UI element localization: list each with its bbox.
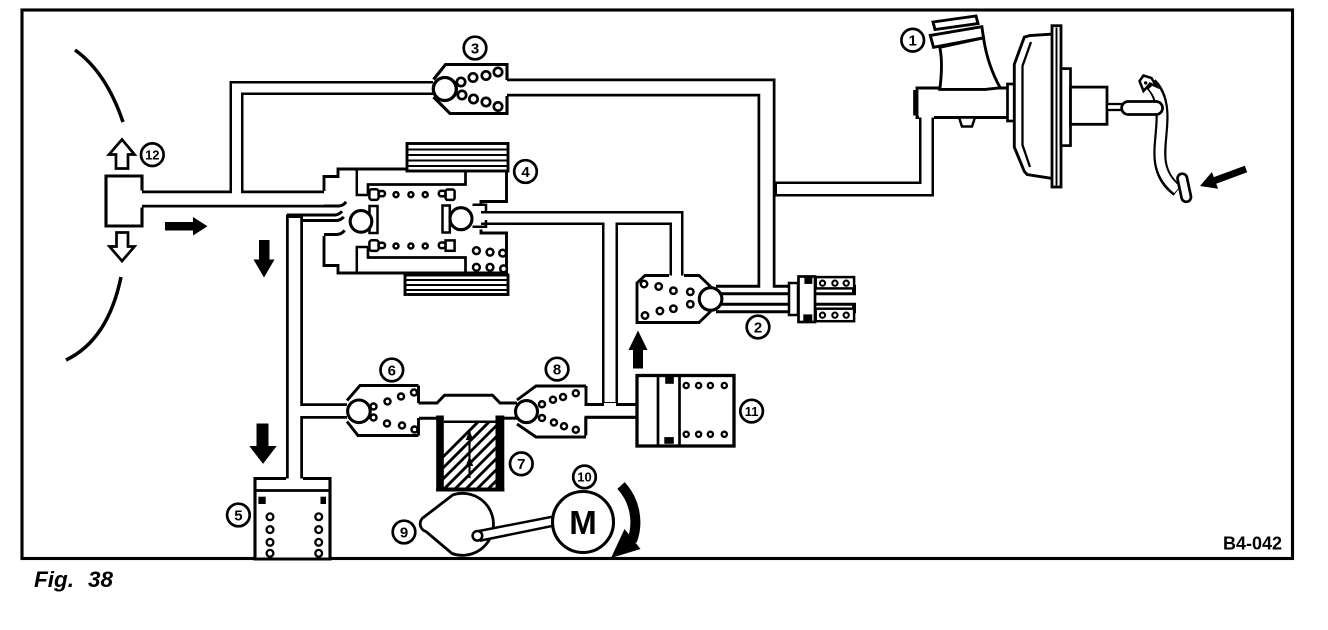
hollow arrow up at wheel cylinder — [109, 140, 135, 169]
solid arrow at pedal — [1200, 166, 1247, 189]
pipe: tee branch down from valve4 output to channel near 11 — [602, 224, 618, 403]
pressure cylinder 11 body — [637, 376, 734, 447]
valve 4 upper-left inner bracket — [357, 170, 368, 195]
motor rotation arrow — [621, 486, 635, 542]
cam crank pin — [473, 531, 483, 541]
cylinder 11 seal marks — [665, 376, 674, 384]
control valve 4 outline — [324, 169, 507, 273]
wheel drum arc (upper segment) — [75, 50, 123, 122]
reservoir cap — [933, 16, 978, 30]
label circle 7 — [510, 453, 533, 476]
svg-text:7: 7 — [517, 456, 525, 473]
pump chamber 7 hatching — [400, 420, 568, 500]
wheel cylinder 12 — [106, 176, 142, 226]
pipe: wheel cylinder 12 to valve 4 inlet — [139, 191, 334, 208]
label circle 12 — [141, 143, 164, 166]
valve 4 outlet mouth flare — [473, 205, 487, 227]
check valve 6 spring circles — [371, 390, 418, 433]
svg-text:B4-042: B4-042 — [1223, 534, 1282, 554]
clevis rod pill — [1122, 102, 1163, 115]
motor connecting rod — [479, 511, 584, 541]
check valve 3 body — [433, 65, 507, 114]
reservoir collar — [930, 27, 983, 48]
check valve 8 body — [517, 386, 586, 437]
valve 2 spring circles — [641, 281, 694, 319]
bridge pipe between valve 6 and valve 8 over pump chamber 7 — [419, 395, 518, 418]
proportioning valve 2 left body — [637, 276, 711, 323]
svg-text:4: 4 — [521, 164, 530, 181]
wheel drum arc (lower segment) — [66, 277, 121, 360]
svg-text:5: 5 — [234, 507, 242, 524]
valve 4 inner floor line — [368, 247, 466, 272]
check valve 3 spring circles — [457, 68, 502, 111]
valve 2 ball — [699, 288, 722, 311]
pump chamber 7 piston stroke arrow — [466, 430, 473, 478]
valve 2 right fitting block — [799, 277, 816, 323]
solid arrow up left of valve 2 — [629, 331, 648, 369]
svg-text:10: 10 — [577, 470, 591, 485]
valve 4 upper spring row — [369, 189, 454, 200]
pump chamber 7 left wall — [436, 416, 444, 492]
label circle 8 — [546, 358, 569, 381]
booster dome contour line — [1023, 42, 1032, 167]
accumulator 5 body — [255, 479, 330, 560]
solid arrow right after wheel cylinder — [165, 217, 208, 236]
check valve 8 spring circles — [539, 390, 579, 433]
valve 2 right fitting collar — [789, 283, 798, 315]
pushrod cylinder — [1071, 87, 1108, 124]
pipe: branch to check valve 6 inlet — [298, 403, 350, 419]
label circle 5 — [227, 504, 250, 527]
valve 4 bottom-right spring circles — [473, 247, 507, 272]
hydraulic pipe network (outer black walls) — [139, 88, 927, 481]
valve 2 fitting top-right box — [816, 277, 854, 288]
valve 4 left ball — [350, 211, 372, 233]
valve 2 fitting circles — [820, 281, 849, 318]
pipe: master cylinder down pipe and left run to vertical — [770, 114, 927, 189]
valve 4 lower spring row — [369, 240, 454, 251]
accumulator 5 spring circles — [267, 513, 323, 556]
pushrod thin rod — [1107, 104, 1122, 110]
pedal pad — [1177, 173, 1192, 203]
label circle 4 — [514, 160, 537, 183]
check valve 6 body — [347, 386, 419, 436]
motor 10 circle — [553, 492, 614, 553]
valve 4 left ball seat — [370, 206, 378, 233]
valve 4 inlet funnel lines — [287, 202, 346, 235]
valve 2 fitting bottom-right box — [816, 309, 854, 322]
label circle 2 — [747, 316, 770, 339]
master cylinder outlet bump — [959, 118, 975, 127]
valve 4 lower-left inner bracket — [357, 247, 368, 272]
valve 4 inner ceiling line — [368, 170, 466, 195]
valve 4 bottom hatched block — [405, 275, 508, 295]
pipe: vertical run down to accumulator 5 — [286, 215, 303, 481]
svg-text:12: 12 — [145, 148, 159, 163]
pipe: valve 2 output channel lower — [716, 303, 800, 314]
master cylinder barrel (1) — [915, 88, 1009, 118]
valve 4 right ball — [450, 208, 472, 230]
pipe: tee up from pipe-12 to check valve 3 left port — [237, 88, 438, 201]
hydraulic pipe network (inner white bores) — [136, 88, 927, 485]
valve 2 fitting seal marks — [804, 276, 812, 284]
hollow arrow down at wheel cylinder — [110, 233, 135, 262]
check valve 8 ball — [516, 401, 538, 423]
junction walls between valve 8, riser pipe and cylinder 11 — [585, 405, 639, 436]
svg-text:3: 3 — [471, 40, 479, 57]
svg-text:1: 1 — [909, 33, 917, 50]
label circle 6 — [381, 359, 404, 382]
pedal arm — [1151, 84, 1178, 191]
valve 4 top hatched block — [407, 144, 508, 172]
solid arrow down above accumulator 5 — [249, 424, 276, 464]
pipe: valve 2 output channel upper — [716, 285, 800, 296]
solid arrow down left of valve 4 — [254, 240, 275, 278]
svg-text:8: 8 — [553, 361, 561, 378]
label circle 9 — [393, 521, 416, 544]
svg-text:6: 6 — [388, 362, 396, 379]
control valve 4 body fill — [324, 169, 507, 273]
reservoir body — [940, 38, 1000, 90]
pump chamber 7 right wall — [496, 416, 505, 492]
pipe: check valve 3 output to down-corner and down to valve 2 — [505, 88, 767, 289]
svg-text:38: 38 — [88, 567, 114, 592]
pump eccentric cam 9 — [420, 493, 493, 555]
svg-text:11: 11 — [745, 404, 759, 419]
check valve 3 ball — [433, 78, 456, 101]
booster front collar — [1008, 84, 1016, 121]
accumulator 5 seal marks — [258, 497, 265, 504]
pedal pivot hook — [1140, 76, 1157, 92]
check valve 6 ball — [348, 400, 371, 423]
brake booster dome — [1014, 34, 1053, 179]
valve 4 right ball seat — [443, 206, 450, 233]
pipe: valve 4 output right run and down into valve 2 body — [478, 218, 677, 276]
label circle 11 — [740, 400, 763, 423]
label circle 1 — [901, 29, 924, 52]
label circle 10 — [573, 466, 596, 489]
booster back plate — [1052, 26, 1061, 187]
cylinder 11 spring circles — [684, 383, 727, 437]
pump chamber 7 bottom wall — [436, 488, 504, 492]
pipe: valve 2 channels right of block — [814, 285, 856, 296]
svg-text:9: 9 — [400, 524, 408, 541]
svg-text:M: M — [569, 504, 597, 541]
booster rear housing — [1061, 69, 1071, 146]
svg-text:2: 2 — [754, 319, 762, 336]
label circle 3 — [464, 37, 487, 60]
svg-text:Fig.: Fig. — [34, 567, 74, 592]
pump chamber 7 top line — [444, 421, 496, 424]
